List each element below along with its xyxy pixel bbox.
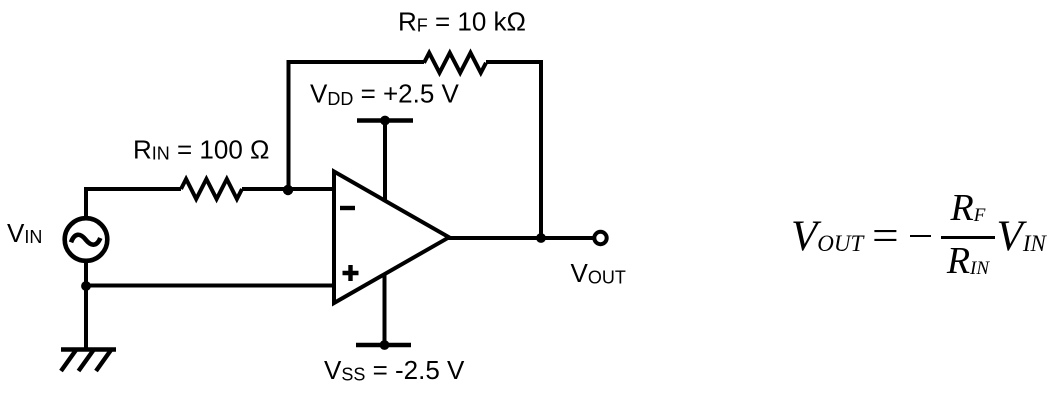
- wire: plus input bottom wire: [86, 284, 336, 288]
- ground: slash 3: [96, 350, 111, 371]
- ground: slash 1: [61, 350, 76, 371]
- wire: feedback right vertical down to output: [539, 60, 543, 238]
- op-amp U1: plus symbol (non-inverting input): [343, 265, 359, 281]
- svg-text:RF = 10 kΩ: RF = 10 kΩ: [398, 7, 526, 37]
- svg-text:VIN: VIN: [7, 218, 42, 248]
- wire: R_IN to op-amp inverting input: [242, 187, 336, 191]
- node: junction dot at source bottom: [81, 281, 91, 291]
- svg-text:RIN = 100 Ω: RIN = 100 Ω: [133, 135, 269, 165]
- node: junction dot on output: [536, 233, 546, 243]
- resistor R_F (zigzag): [424, 53, 486, 73]
- wire: input top wire from source to R_IN: [86, 189, 181, 220]
- op-amp U1: triangle body: [334, 172, 449, 304]
- source V1: AC source circle: [65, 218, 108, 261]
- wire: feedback top right segment: [486, 60, 543, 64]
- terminal: output open circle: [594, 232, 606, 244]
- wire: VSS supply lead from op-amp: [383, 272, 387, 345]
- source V1: sine symbol: [71, 235, 100, 245]
- node: junction dot at inverting input / feedback tap: [283, 185, 293, 195]
- ground: bar: [61, 347, 116, 351]
- op-amp U1: minus symbol (inverting input): [340, 206, 355, 210]
- svg-text:VSS = -2.5 V: VSS = -2.5 V: [324, 355, 465, 385]
- wire: output wire from op-amp apex to terminal: [448, 236, 593, 240]
- ground: slash 2: [79, 350, 94, 371]
- wire: source bottom lead down to ground: [84, 260, 88, 350]
- svg-text:VDD = +2.5 V: VDD = +2.5 V: [310, 79, 460, 110]
- resistor R_IN (zigzag): [181, 179, 242, 199]
- wire: VDD supply lead into op-amp: [383, 121, 387, 205]
- power VDD: bar: [357, 118, 413, 122]
- power VDD: junction dot: [380, 116, 390, 126]
- power VSS: bar: [356, 343, 411, 347]
- wire: feedback top left segment: [287, 60, 425, 64]
- wire: feedback left vertical: [287, 62, 291, 189]
- svg-text:VOUT: VOUT: [571, 258, 626, 288]
- power VSS: junction dot: [380, 340, 390, 350]
- equation: VOUT = -RF/RIN * VIN: [791, 181, 1046, 284]
